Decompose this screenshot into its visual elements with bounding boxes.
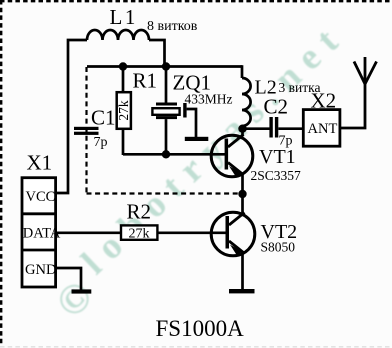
node emitter wire/dashed outline junction [238,190,246,198]
module outline dashed bottom edge [87,192,243,194]
svg-text:L1: L1 [110,5,138,29]
wire ZQ1 bottom lead [165,119,168,155]
svg-text:R1: R1 [133,69,158,93]
wire X1 VCC pin to L1 left end [56,40,88,193]
capacitor C2 [269,117,278,138]
svg-text:2SC3357: 2SC3357 [251,168,302,183]
wire ZQ1 top lead [165,67,168,104]
svg-text:27k: 27k [129,227,150,242]
svg-text:R2: R2 [127,200,152,224]
wire VT1 emitter to VT2 collector [241,173,244,215]
ground (VT2 emitter) [229,289,255,293]
wire middle rail to VT1 base [123,153,226,156]
node middle rail/ZQ1 junction [162,150,170,158]
svg-text:VT1: VT1 [259,146,296,168]
svg-text:DATA: DATA [23,226,61,242]
inductor L1 [87,30,149,40]
ground (X1 GND) [72,289,92,293]
connector X2 [303,110,340,147]
wire VT2 emitter to ground [241,252,244,290]
svg-text:C2: C2 [264,95,289,119]
node rail/R1 junction [119,62,127,70]
wire R2 to VT2 base [157,231,227,234]
svg-text:VCC: VCC [26,189,56,205]
svg-text:FS1000A: FS1000A [156,316,245,341]
svg-text:433MHz: 433MHz [185,92,233,107]
svg-text:X2: X2 [311,89,337,113]
module outline dashed left edge [85,67,87,194]
watermark lobotryas.net [47,14,353,327]
wire X1 DATA pin to R2 [56,231,121,234]
svg-text:ANT: ANT [308,121,338,137]
wire ZQ1 case to ground [187,109,196,138]
svg-text:GND: GND [25,262,56,278]
wire X2 to antenna [340,57,365,128]
wire L1 right end to top rail [149,40,165,67]
svg-text:8 витков: 8 витков [147,19,198,34]
node rail/ZQ1/L1 junction [162,62,170,70]
wire R1 top lead [122,67,125,93]
svg-text:X1: X1 [27,151,53,175]
resistor R2 [121,225,157,239]
antenna [354,62,377,85]
inductor L2 [242,78,251,126]
connector X1 [22,178,56,287]
capacitor C1 [74,127,99,135]
svg-text:C1: C1 [91,106,116,130]
wire X1 GND pin to ground [56,268,81,290]
wire junction to C2 [243,127,270,130]
node L2/C2/VT1-collector junction [238,125,246,133]
svg-text:27k: 27k [116,100,131,121]
wire C2 to X2 [278,127,303,130]
wire top VCC rail [87,65,242,68]
svg-text:S8050: S8050 [261,240,296,255]
crystal ZQ1 [152,103,179,120]
svg-text:7p: 7p [94,135,108,150]
wire R1 bottom lead [122,129,125,155]
ZQ1 case electrode plate [183,103,186,118]
resistor R1 [117,92,131,129]
ground (ZQ1 case) [185,137,209,141]
wire VT1 collector to L2 junction [241,129,244,136]
wire top rail corner to L2 [241,65,244,78]
transistor VT1 [211,135,253,177]
transistor VT2 [211,212,255,256]
